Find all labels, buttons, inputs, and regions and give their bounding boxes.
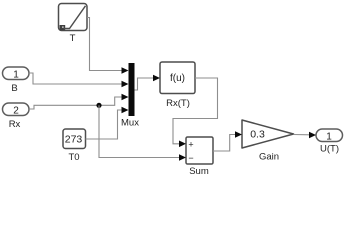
svg-text:2: 2 bbox=[13, 105, 19, 116]
wire Sum output to Gain input bbox=[213, 131, 242, 151]
wire Rx to Mux input 3 bbox=[29, 94, 129, 109]
junction node on Rx wire bbox=[96, 103, 101, 108]
svg-text:Rx(T): Rx(T) bbox=[166, 98, 190, 109]
svg-text:Mux: Mux bbox=[121, 118, 139, 129]
wire B to Mux input 2 bbox=[29, 73, 129, 87]
svg-text:Gain: Gain bbox=[259, 152, 279, 163]
inport 2 bbox=[3, 103, 30, 116]
wire f(u) output to Sum plus input bbox=[173, 78, 218, 147]
constant T0 value 273 bbox=[63, 129, 86, 149]
wire Gain output to outport U(T) bbox=[294, 132, 317, 139]
svg-text:1: 1 bbox=[13, 69, 19, 80]
svg-text:273: 273 bbox=[65, 133, 83, 145]
svg-text:Sum: Sum bbox=[189, 166, 209, 177]
svg-text:B: B bbox=[11, 83, 17, 94]
wire Mux output to f(u) input bbox=[135, 75, 161, 90]
svg-text:1: 1 bbox=[326, 131, 332, 142]
svg-text:U(T): U(T) bbox=[320, 143, 339, 154]
outport 1 U(T) bbox=[316, 129, 343, 142]
svg-text:Rx: Rx bbox=[9, 119, 21, 130]
function block f(u) Rx(T) bbox=[160, 62, 195, 94]
source block T (ramp icon) bbox=[59, 4, 88, 31]
svg-text:−: − bbox=[188, 153, 193, 163]
wire T0 to Mux input 4 bbox=[86, 107, 129, 139]
gain block 0.3 bbox=[242, 120, 294, 148]
svg-text:T: T bbox=[70, 33, 76, 44]
svg-text:T0: T0 bbox=[68, 152, 79, 163]
sum block Sum bbox=[186, 137, 213, 164]
inport 1 bbox=[3, 67, 30, 80]
wire Rx junction to Sum minus input bbox=[99, 105, 186, 161]
svg-text:f(u): f(u) bbox=[170, 73, 185, 84]
wire T to Mux input 1 bbox=[87, 18, 129, 74]
mux U-mux bar bbox=[129, 63, 135, 116]
svg-text:0.3: 0.3 bbox=[250, 129, 265, 141]
svg-text:+: + bbox=[188, 139, 193, 149]
